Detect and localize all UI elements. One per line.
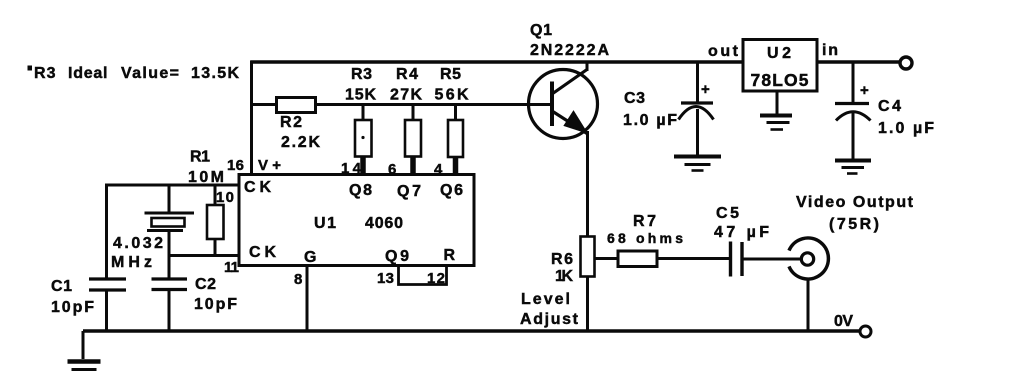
svg-text:G: G: [304, 249, 316, 266]
label 4: [434, 161, 443, 178]
svg-text:R1: R1: [190, 149, 210, 166]
svg-text:Video Output: Video Output: [796, 194, 914, 211]
resistor R4: [405, 104, 421, 175]
label R6 1K: [551, 251, 573, 285]
svg-text:R6: R6: [551, 251, 573, 268]
label R3 15K: [345, 66, 376, 104]
svg-text:R2: R2: [280, 114, 302, 131]
label Q8: [349, 182, 372, 199]
svg-text:C2: C2: [195, 276, 216, 293]
wire crystal top rail: [105, 184, 239, 187]
svg-text:0V: 0V: [834, 313, 853, 330]
svg-text:R5: R5: [440, 66, 461, 83]
wire pin 11 rail: [169, 254, 239, 257]
label R4 27K: [390, 66, 422, 104]
label 14: [341, 160, 362, 177]
wire loop pin 13 to pin 12: [399, 266, 447, 285]
capacitor C2: [152, 279, 188, 331]
svg-text:R: R: [444, 247, 456, 264]
wire left vertical from top rail to U1 V+ pin 16: [250, 61, 253, 176]
svg-text:C4: C4: [878, 98, 901, 115]
label R: [444, 247, 456, 264]
label C5 47uF: [714, 205, 769, 241]
label CK top: [244, 179, 271, 196]
regulator U2: [743, 40, 817, 92]
label C4 plus: [860, 82, 869, 99]
resistor R6: [581, 237, 595, 332]
ground below C3: [674, 157, 721, 171]
svg-text:Q6: Q6: [440, 182, 463, 199]
label C4 value: [878, 98, 934, 137]
wire emitter of Q1 down to R6: [586, 136, 589, 237]
crystal X1 4.032 MHz: [145, 213, 195, 279]
svg-text:C1: C1: [51, 278, 72, 295]
svg-text:1.0 µF: 1.0 µF: [878, 120, 934, 137]
label out: [708, 43, 739, 60]
ground below C4: [835, 161, 871, 174]
label Q1 2N2222A: [530, 22, 609, 59]
svg-text:56K: 56K: [435, 87, 469, 104]
label Level Adjust: [520, 291, 579, 328]
wire R6 wiper to R7: [595, 257, 619, 260]
svg-text:U1: U1: [314, 215, 336, 232]
svg-text:out: out: [708, 43, 739, 60]
label C3 plus: [701, 81, 710, 98]
svg-text:13.5K: 13.5K: [191, 65, 239, 82]
resistor R3: [355, 104, 372, 175]
svg-text:Q8: Q8: [349, 182, 372, 199]
label 11: [224, 259, 239, 276]
label R1 10M: [188, 149, 224, 187]
terminal 0V: [860, 326, 871, 337]
svg-text:2N2222A: 2N2222A: [530, 42, 609, 59]
svg-text:R7: R7: [633, 213, 656, 230]
svg-text:8: 8: [294, 271, 302, 288]
wire C1 top lead: [105, 185, 108, 279]
label U1: [314, 215, 336, 232]
svg-text:MHz: MHz: [111, 254, 152, 271]
label 12: [427, 270, 445, 287]
capacitor C1: [89, 279, 126, 331]
capacitor C3: [679, 61, 714, 156]
BNC connector Video Output: [789, 238, 828, 279]
svg-text:13: 13: [377, 270, 394, 287]
wire base rail at y104 left of R2: [251, 103, 277, 106]
label 0V: [834, 313, 853, 330]
svg-text:Ideal: Ideal: [68, 65, 108, 82]
svg-text:6: 6: [388, 161, 396, 178]
transistor Q1: [529, 61, 598, 139]
svg-text:10: 10: [216, 189, 234, 206]
svg-text:10pF: 10pF: [51, 299, 94, 316]
svg-text:4.032: 4.032: [113, 235, 163, 252]
label 8: [294, 271, 302, 288]
ground bottom left: [68, 331, 101, 370]
wire top rail right of U2: [817, 60, 900, 64]
svg-text:Q9: Q9: [385, 248, 409, 265]
svg-text:Q1: Q1: [530, 22, 552, 39]
capacitor C5: [731, 242, 743, 277]
label 4060: [365, 215, 403, 232]
wire ground rail bottom: [83, 329, 860, 332]
label CK bottom: [249, 244, 276, 261]
resistor R5: [448, 104, 463, 175]
wire top rail V+: [251, 60, 744, 64]
svg-text:Value=: Value=: [121, 65, 179, 82]
svg-text:78LO5: 78LO5: [751, 70, 809, 90]
label R2: [280, 114, 320, 151]
resistor R1: [207, 185, 224, 256]
svg-text:4: 4: [434, 161, 443, 178]
svg-text:Level: Level: [521, 291, 570, 308]
svg-text:4060: 4060: [365, 215, 403, 232]
svg-text:10pF: 10pF: [194, 296, 237, 313]
svg-text:Q7: Q7: [397, 183, 421, 200]
label C2 10pF: [194, 276, 237, 313]
svg-text:47 µF: 47 µF: [714, 224, 769, 241]
capacitor C4: [835, 61, 871, 160]
wire base rail from R2 to Q1 base: [316, 103, 552, 106]
svg-text:+: +: [860, 82, 869, 99]
label Video Output (75R): [796, 194, 914, 233]
svg-text:C3: C3: [624, 90, 645, 107]
svg-text:10M: 10M: [188, 169, 224, 186]
wire crystal top lead: [168, 185, 171, 213]
ground below U2: [760, 91, 792, 130]
svg-text:1K: 1K: [555, 268, 573, 285]
wire R7 to C5: [657, 257, 729, 260]
svg-text:R3: R3: [34, 65, 56, 82]
label Q9: [385, 248, 409, 265]
label C3 value: [623, 90, 677, 129]
label 4.032 MHz: [111, 235, 163, 271]
label 6: [388, 161, 396, 178]
svg-text:R4: R4: [396, 66, 418, 83]
label 10: [216, 189, 234, 206]
label 13: [377, 270, 394, 287]
wire pin 8 G down to ground rail: [306, 266, 309, 332]
svg-text:15K: 15K: [345, 87, 376, 104]
resistor R7: [618, 251, 657, 267]
label in: [822, 42, 838, 59]
svg-text:16: 16: [227, 157, 244, 174]
label 16: [227, 157, 244, 174]
svg-text:11: 11: [224, 259, 239, 276]
svg-text:C5: C5: [716, 205, 739, 222]
svg-text:2.2K: 2.2K: [281, 134, 320, 151]
wire BNC stem: [807, 279, 810, 331]
label Q7: [397, 183, 421, 200]
svg-text:27K: 27K: [390, 87, 422, 104]
svg-text:in: in: [822, 42, 838, 59]
svg-text:R3: R3: [351, 66, 372, 83]
label R5 56K: [435, 66, 469, 104]
label R7 68 ohms: [607, 213, 683, 246]
resistor R2: [277, 98, 316, 113]
note text *R3 Ideal Value= 13.5K: [28, 65, 240, 82]
label C1 10pF: [51, 278, 94, 316]
label Q6: [440, 182, 463, 199]
svg-text:1.0 µF: 1.0 µF: [623, 112, 677, 129]
label G: [304, 249, 316, 266]
label V+: [258, 157, 281, 174]
wire C5 to BNC: [744, 258, 802, 261]
svg-text:+: +: [701, 81, 710, 98]
IC U1 4060: [239, 175, 474, 266]
terminal top right: [900, 57, 912, 69]
label U2 78LO5: [751, 45, 809, 90]
